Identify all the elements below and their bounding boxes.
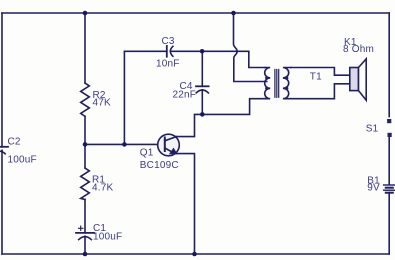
wire right rail mid (S1 to battery) (388, 137, 390, 185)
svg-text:47K: 47K (93, 98, 112, 109)
speaker K1 (350, 59, 366, 100)
wire C1 bottom lead (84, 236, 86, 254)
node bottom rail / C1 (83, 252, 88, 257)
node top rail / R2 (83, 11, 88, 16)
capacitor C2 (0, 147, 8, 254)
transformer secondary winding knots (285, 76, 288, 79)
svg-text:100uF: 100uF (93, 232, 122, 243)
wire right rail top (to S1) (388, 13, 390, 117)
wire emitter net (176, 154, 195, 254)
wire secondary top lead (291, 68, 350, 76)
capacitor C1 (76, 226, 94, 240)
svg-text:C2: C2 (8, 137, 21, 148)
node base rail / feedback (122, 142, 127, 147)
svg-text:4.7K: 4.7K (92, 182, 114, 193)
wire C2 stub (1, 149, 3, 152)
svg-text:S1: S1 (366, 124, 379, 135)
wire center tap with hop (234, 13, 267, 82)
switch S1 (387, 119, 392, 137)
wire left rail lower (from C2) (1, 150, 3, 254)
wire R2 bottom to base node (84, 116, 86, 144)
wire primary top lead (249, 51, 265, 67)
transformer core (275, 70, 279, 98)
wire C3 feedback vertical (123, 51, 125, 144)
wire top rail (2, 12, 389, 14)
svg-text:C3: C3 (162, 36, 175, 47)
svg-text:10nF: 10nF (156, 59, 180, 70)
node C3 / C4 (200, 49, 205, 54)
capacitor C3 (167, 46, 173, 57)
wire left rail upper (to C2) (1, 13, 3, 147)
wire C3 right lead (171, 50, 249, 52)
svg-text:8 Ohm: 8 Ohm (343, 44, 374, 55)
wire collector net (176, 99, 264, 137)
node top rail / center tap (231, 11, 236, 16)
battery B1 (384, 185, 395, 193)
wire right rail bottom (battery to bottom) (388, 193, 390, 254)
wire R1 bottom to C1 (84, 200, 86, 233)
wire R2 top lead (84, 13, 86, 83)
transformer primary winding knots (265, 76, 268, 79)
svg-text:22nF: 22nF (173, 89, 197, 100)
wire base rail (85, 143, 158, 145)
svg-text:Q1: Q1 (140, 148, 154, 159)
wire bottom rail (2, 253, 389, 255)
wire C3 left lead (124, 50, 166, 52)
svg-text:9V: 9V (367, 183, 380, 194)
transformer T1 primary winding (265, 68, 271, 99)
wire secondary bottom lead (291, 84, 350, 99)
transformer T1 secondary winding (283, 68, 291, 99)
resistor R1 (81, 168, 90, 200)
resistor R2 (81, 83, 90, 116)
node C4 / collector (200, 112, 205, 117)
node base rail / R divider (83, 142, 88, 147)
transistor Q1 (158, 134, 180, 156)
svg-text:BC109C: BC109C (140, 160, 179, 171)
svg-text:T1: T1 (310, 72, 322, 83)
node bottom rail / emitter (192, 252, 197, 257)
svg-text:100uF: 100uF (8, 154, 37, 165)
capacitor C4 (196, 51, 209, 114)
wire base node to R1 (84, 144, 86, 168)
